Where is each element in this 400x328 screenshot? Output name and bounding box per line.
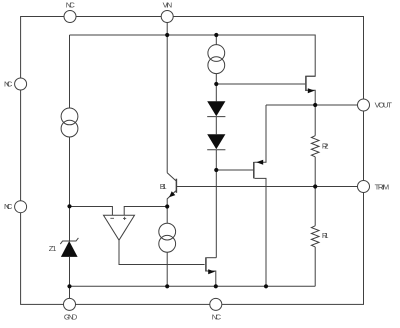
svg-text:NC: NC — [66, 0, 75, 9]
svg-text:B1: B1 — [160, 182, 167, 191]
svg-text:VIN: VIN — [163, 0, 173, 9]
svg-text:NC: NC — [212, 313, 222, 322]
svg-text:NC: NC — [4, 80, 13, 89]
svg-text:NC: NC — [4, 202, 13, 211]
svg-text:GND: GND — [64, 313, 78, 322]
svg-text:R1: R1 — [322, 231, 329, 240]
svg-text:VOUT: VOUT — [375, 101, 393, 110]
svg-text:TRIM: TRIM — [375, 182, 390, 191]
svg-text:Z1: Z1 — [49, 244, 57, 253]
svg-text:R2: R2 — [322, 141, 329, 150]
